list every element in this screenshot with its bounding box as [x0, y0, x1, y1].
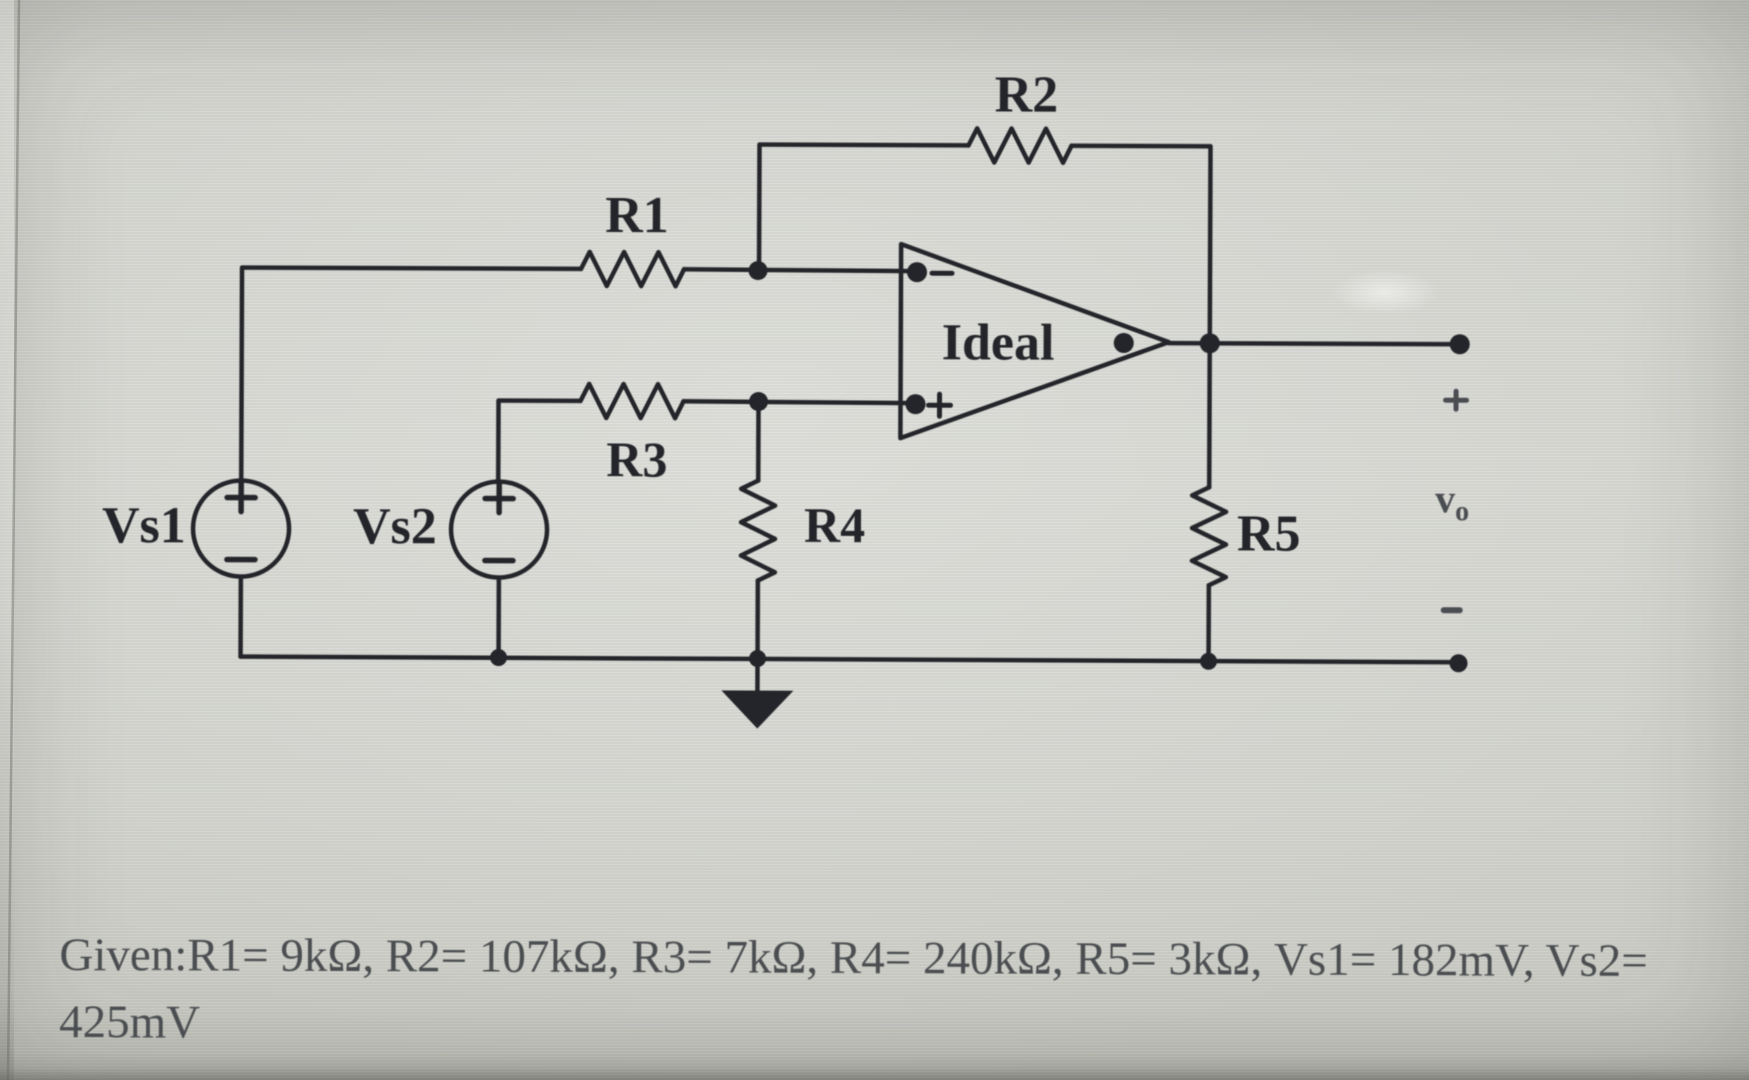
wire Vs2 to ground rail	[496, 579, 501, 658]
svg-text:vo: vo	[1435, 476, 1469, 527]
wire inverting input from Vs1	[241, 268, 581, 481]
wire op-amp output	[1169, 343, 1460, 344]
node output terminal bottom	[1449, 654, 1467, 672]
svg-text:R4: R4	[804, 497, 865, 553]
node R5 rail junction	[1200, 653, 1217, 670]
voltage source Vs1	[193, 480, 289, 576]
node R4 rail junction	[749, 650, 766, 667]
svg-text:R3: R3	[606, 431, 667, 487]
pin minus dot	[907, 262, 927, 282]
svg-text:R1: R1	[605, 187, 669, 244]
svg-text:R2: R2	[995, 66, 1059, 123]
wire Vs1 to ground rail	[238, 578, 243, 657]
resistor R1	[581, 252, 684, 286]
wire ground rail	[241, 657, 1459, 663]
resistor R3	[580, 384, 683, 418]
svg-text:Vs2: Vs2	[353, 498, 437, 555]
pin minus sign	[932, 271, 952, 276]
node output junction	[1200, 333, 1220, 353]
node noninverting junction	[749, 392, 768, 411]
pin plus dot	[905, 394, 925, 414]
op-amp U1	[900, 244, 1169, 439]
resistor R2	[968, 128, 1071, 162]
svg-text:Vs1: Vs1	[102, 497, 186, 554]
node inverting junction	[748, 261, 767, 280]
node Vs2 rail junction	[490, 649, 507, 666]
svg-text:Ideal: Ideal	[942, 314, 1055, 371]
svg-text:R5: R5	[1237, 505, 1301, 562]
wire R3 to op-amp plus input	[684, 401, 914, 403]
wire top feedback left segment	[759, 145, 968, 272]
wire output node to R5	[1207, 343, 1212, 487]
ground	[721, 658, 793, 728]
resistor R4	[741, 480, 775, 580]
wire R3 corner from Vs2	[498, 401, 580, 482]
wire noninverting node to R4	[756, 402, 761, 481]
pin output dot	[1114, 333, 1134, 353]
resistor R5	[1192, 487, 1226, 585]
pin plus sign	[928, 394, 950, 416]
voltage source Vs2	[451, 481, 547, 577]
wire R5 to ground rail	[1206, 585, 1211, 661]
label output minus	[1444, 607, 1460, 613]
node output terminal top	[1450, 334, 1470, 354]
wire R1 to op-amp minus input	[684, 269, 915, 271]
wire top feedback right segment	[1071, 146, 1211, 344]
wire R4 to ground rail	[755, 581, 760, 659]
label output plus	[1446, 391, 1467, 409]
